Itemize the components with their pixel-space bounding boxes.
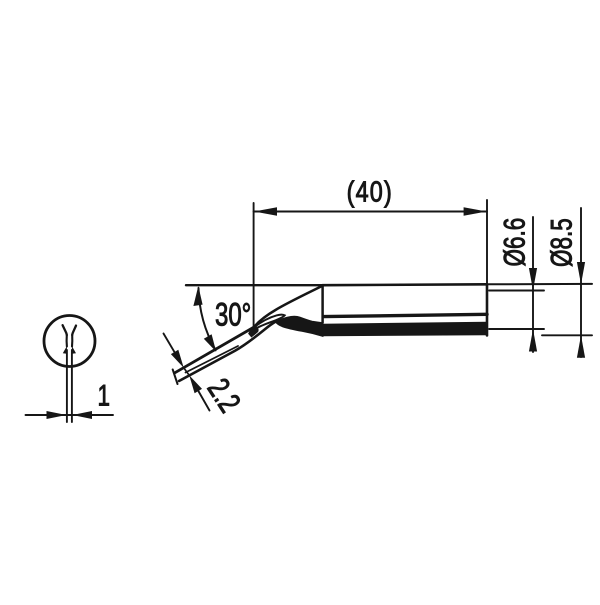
svg-text:Ø8.5: Ø8.5 (544, 218, 578, 267)
angle reference line (186, 284, 323, 286)
angle arc lower arrowhead (204, 334, 216, 352)
phi6.6 dimension line (532, 217, 534, 352)
front view blade right line (71, 350, 73, 422)
svg-text:Ø6.6: Ø6.6 (497, 218, 531, 267)
front view right flare (72, 346, 76, 354)
blade lower edge and underside curve (179, 322, 276, 381)
tip body top edge (323, 283, 488, 287)
front view right prong (72, 326, 76, 335)
dimension 2.2 lower tail line (198, 390, 210, 411)
dimension (40) left arrowhead (254, 207, 277, 216)
front view blade left line (66, 350, 68, 422)
blade tip end face (173, 370, 178, 385)
dimension 1 left arrowhead (47, 411, 67, 419)
phi6.6 lower extension line (489, 328, 544, 330)
dimension (40) left extension line (253, 203, 255, 328)
svg-text:1: 1 (98, 378, 111, 412)
bend junction merge blob (249, 327, 258, 337)
dimension 2.2 upper tail line (164, 334, 176, 354)
phi8.5 dimension line (580, 208, 582, 357)
phi8.5 upper arrowhead (577, 262, 585, 284)
bend top S-curve (254, 286, 323, 327)
tip body left edge (321, 285, 324, 322)
dimension 2.2 lower arrowhead (189, 375, 202, 393)
dimension 1 line (26, 414, 114, 416)
phi6.6 upper extension line (489, 290, 544, 292)
dimension 2.2 upper arrowhead (171, 350, 184, 368)
dimension (40) right extension line (486, 200, 488, 284)
dimension (40) right arrowhead (464, 207, 487, 216)
phi8.5 lower arrowhead (577, 335, 585, 357)
body thick black band (323, 322, 488, 337)
blade upper edge (175, 327, 254, 372)
dimension (40) line (254, 211, 487, 213)
heel black fill (276, 317, 323, 336)
front view waist right (71, 335, 73, 347)
svg-text:30°: 30° (215, 296, 251, 332)
body thin dark stripe (324, 314, 488, 316)
front view left prong (63, 325, 67, 335)
angle arc upper arrowhead (193, 286, 202, 306)
phi6.6 upper arrowhead (529, 268, 537, 290)
phi6.6 lower arrowhead (529, 329, 537, 351)
phi8.5 lower extension line (542, 334, 592, 336)
front view left flare (63, 346, 67, 354)
bevel leaf outline (254, 315, 285, 330)
angle 30 arc (199, 288, 216, 350)
front view circle (44, 316, 95, 367)
dimension 2.2 crossing segment (184, 368, 189, 375)
body top extension line to phi8.5 (487, 283, 592, 285)
svg-text:(40): (40) (347, 175, 393, 208)
front view waist left (66, 335, 68, 347)
tip body right edge (486, 284, 489, 335)
blade middle line (186, 346, 239, 373)
dimension 1 right arrowhead (72, 411, 92, 419)
